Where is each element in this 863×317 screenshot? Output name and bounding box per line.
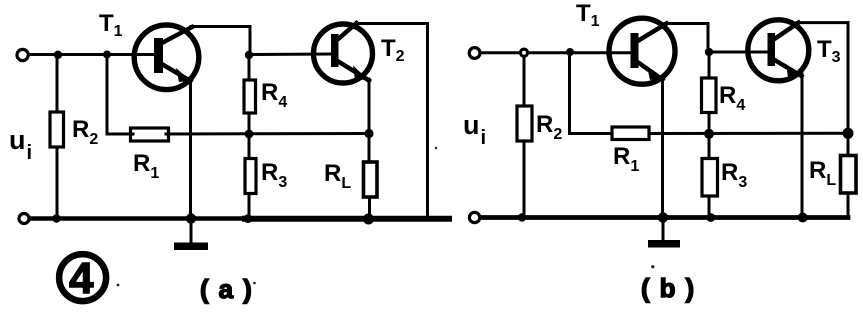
svg-text:4: 4 [69, 254, 94, 303]
svg-text:(b): (b) [641, 273, 704, 303]
svg-text:(a): (a) [200, 274, 262, 304]
